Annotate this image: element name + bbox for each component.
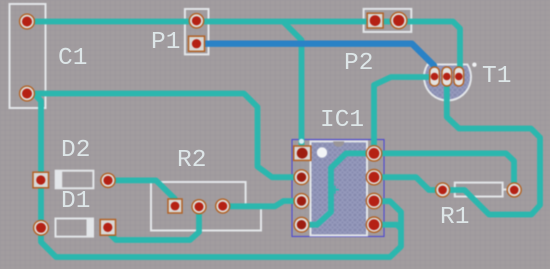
- pad D1.2 square: [100, 220, 115, 236]
- IC U1 body IC1: [311, 141, 368, 235]
- pad R2.2: [192, 200, 206, 214]
- label C1: [58, 47, 87, 71]
- wire net top: C1.1 - P1.1 - P2 - T1 right pad: [27, 22, 460, 71]
- pad T1.3 oval: [454, 67, 464, 86]
- pad R2.1 square: [168, 199, 182, 213]
- label D1: [61, 190, 90, 214]
- pad P2.1 square: [367, 13, 383, 28]
- pad C1.1: [20, 14, 35, 29]
- pad T1.2 oval: [442, 67, 452, 86]
- pad IC1.5: [366, 217, 381, 232]
- wire net C1.2 to IC1 left pad2: [27, 94, 302, 178]
- label D2: [61, 139, 90, 163]
- trimmer R2 outline: [151, 182, 261, 231]
- pad IC1.2: [294, 170, 309, 185]
- pad R2.3: [216, 199, 230, 213]
- wire IC1 right pad1 to R1 right pad: [374, 153, 514, 190]
- pad P2.2: [391, 12, 407, 28]
- pad IC1.1 square: [294, 146, 311, 160]
- pad P1.2 square: [189, 36, 205, 51]
- IC1 centre cross node: [331, 186, 339, 194]
- label P2: [344, 52, 373, 76]
- label P1: [151, 31, 180, 55]
- wire inside IC1: right pad1 to left pad4: [302, 153, 375, 224]
- IC U1 selection box: [292, 140, 384, 237]
- label R1: [440, 206, 469, 230]
- node marker above IC1 pin1: [299, 139, 304, 144]
- resistor R1 body: [448, 183, 509, 197]
- diode D1 body: [56, 219, 94, 237]
- pad D2.2: [101, 173, 115, 187]
- pad D1.1: [34, 220, 49, 235]
- pad R1.1: [436, 183, 450, 197]
- wire IC1 right pad1 up to T1 left pad: [374, 77, 430, 153]
- pad IC1.7: [366, 170, 381, 185]
- wire IC1 pad4 right join: [374, 225, 401, 229]
- pad D2.1 square: [33, 172, 49, 188]
- T1 pin1 white dot: [472, 62, 476, 66]
- capacitor C1 outline: [10, 4, 46, 108]
- label T1: [482, 65, 511, 89]
- wire T1 middle pad loop to R1 left pad: [443, 77, 540, 215]
- pad IC1.6: [366, 193, 381, 208]
- pad IC1.4: [294, 217, 309, 232]
- label IC1: [320, 109, 364, 133]
- wire R2 pad3 to IC1 left pad3: [223, 201, 302, 206]
- wire branch down to IC1 pin1: [283, 22, 302, 147]
- connector P1 outline: [185, 9, 209, 54]
- pad IC1.3: [294, 194, 309, 209]
- connector P2 outline: [364, 9, 412, 32]
- wire blue net P1.2 to T1 left pad: [197, 44, 435, 74]
- pad T1.1 oval: [430, 67, 440, 86]
- diode D2 body: [56, 171, 94, 189]
- pad P1.1: [189, 14, 203, 28]
- wire branch down left rail through D2.1 D1.1 and bottom bus: [34, 94, 401, 258]
- wire R2 pad2 to D1.2: [108, 207, 199, 240]
- transistor T1 package: [424, 65, 471, 101]
- label R2: [177, 149, 206, 173]
- wire IC1 right pad2 to R1 left pad: [374, 177, 443, 190]
- pad IC1.8: [366, 146, 381, 161]
- pad C1.2: [20, 86, 35, 101]
- pad R1.2: [507, 183, 521, 197]
- wire D2.2 to R2 pad1: [108, 180, 175, 206]
